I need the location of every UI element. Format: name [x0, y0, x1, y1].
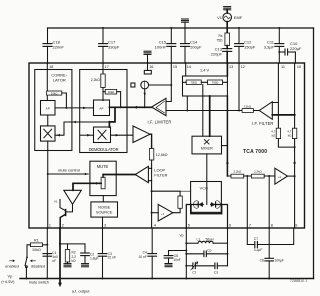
svg-text:15: 15 — [173, 65, 177, 69]
svg-text:I.F. FILTER: I.F. FILTER — [252, 121, 274, 126]
wire mixer to VCO — [206, 154, 208, 205]
svg-text:enabled: enabled — [5, 265, 19, 269]
resistor 4.7k A — [271, 128, 294, 147]
svg-text:220nF: 220nF — [53, 44, 65, 49]
svg-text:150pF: 150pF — [244, 44, 256, 49]
wire pin 7 column internal — [246, 176, 248, 228]
capacitor C2 — [81, 244, 99, 264]
svg-text:mute switch: mute switch — [29, 280, 49, 284]
wire pin 17 column internal — [102, 63, 104, 74]
svg-text:C8: C8 — [260, 258, 264, 262]
wire AP1 output to demodulator — [55, 107, 94, 110]
mute control wire — [48, 167, 88, 175]
svg-text:14: 14 — [187, 65, 191, 69]
wire IF limiter lower input from IF filter line — [166, 110, 227, 112]
node Vp supply label — [1, 274, 15, 285]
loop filter amplifier triangle — [135, 166, 167, 182]
noise source box — [91, 196, 118, 228]
svg-text:AP: AP — [99, 107, 103, 111]
wire loop filter output to mute resistor — [103, 174, 135, 176]
svg-text:Cp: Cp — [207, 249, 211, 253]
svg-text:R1: R1 — [34, 239, 39, 243]
IF limiter triangle — [148, 98, 172, 124]
svg-text:8: 8 — [271, 224, 273, 228]
svg-text:2: 2 — [62, 224, 64, 228]
ground below R2 — [64, 264, 71, 267]
wire pin 8 column internal — [268, 176, 270, 228]
capacitor Cp — [186, 249, 227, 257]
transistor Q1 emitter follower — [54, 200, 73, 229]
wire pin 12 column — [238, 63, 240, 112]
svg-text:TCA 7000: TCA 7000 — [243, 149, 267, 155]
svg-text:1: 1 — [49, 224, 51, 228]
svg-text:10nF: 10nF — [173, 258, 181, 262]
IF amplifier triangle — [133, 126, 150, 143]
internal 1.4V reference box with two 700 ohm resistors — [183, 68, 228, 96]
svg-text:1,8µF: 1,8µF — [90, 257, 99, 261]
resistor R2 2.2k — [65, 244, 76, 264]
svg-text:56µH: 56µH — [206, 238, 215, 242]
svg-text:12: 12 — [241, 65, 245, 69]
svg-text:disabled: disabled — [31, 265, 45, 269]
ground below C2 — [82, 264, 89, 267]
svg-text:6: 6 — [229, 224, 231, 228]
wire AP1 to X1 — [47, 115, 49, 126]
svg-text:FILTER: FILTER — [154, 173, 167, 178]
capacitor C18 — [43, 28, 64, 63]
svg-text:200µF: 200µF — [190, 44, 202, 49]
svg-text:C4: C4 — [143, 250, 147, 254]
resistor 2.2k demodulator — [91, 74, 105, 101]
current source into demod output node — [131, 81, 172, 107]
all-pass AP1 box — [41, 101, 56, 116]
svg-text:3,3µF: 3,3µF — [264, 44, 275, 49]
wire right border supply — [313, 28, 315, 279]
wire demodulated output AP2 to IF limiter — [110, 106, 152, 109]
wire IF amp output down to loop filter column — [150, 134, 152, 148]
svg-text:7: 7 — [249, 224, 251, 228]
capacitor C17 — [99, 27, 120, 63]
VCO block box — [191, 182, 222, 213]
svg-text:V1: V1 — [217, 15, 223, 20]
svg-text:11: 11 — [281, 65, 285, 69]
wire pin 13 column RF input — [226, 63, 231, 176]
wire thick jog to X2 input — [108, 107, 115, 127]
svg-text:(+4,5V): (+4,5V) — [1, 279, 15, 284]
svg-text:nF: nF — [52, 259, 56, 263]
wire varicaps to pin 5 — [186, 205, 196, 229]
wire pin 15 column to IF limiter input — [166, 63, 171, 102]
svg-text:1,4 V: 1,4 V — [200, 68, 209, 73]
svg-text:10kΩ: 10kΩ — [51, 91, 58, 95]
signal source V1 EMF — [217, 10, 243, 33]
wire pin 14 column — [185, 63, 187, 76]
wire IF filter top input from pin 11 — [272, 63, 278, 128]
svg-text:4: 4 — [154, 224, 156, 228]
ground above pin 16 — [144, 51, 151, 63]
svg-text:EMF: EMF — [234, 15, 243, 20]
svg-text:100µF: 100µF — [275, 258, 284, 262]
wire pin 18 column internal — [46, 63, 48, 101]
multiplier X1 box — [41, 126, 56, 141]
svg-text:MIXER: MIXER — [201, 147, 213, 151]
ground above capacitor C14 — [182, 19, 189, 22]
wire pin 10 / pin 9 column — [293, 63, 296, 228]
varicap diode D2 — [211, 201, 221, 209]
svg-text:5: 5 — [188, 224, 190, 228]
svg-text:2,2kΩ: 2,2kΩ — [254, 170, 263, 174]
resistor 12.6k — [149, 149, 167, 161]
resistor 2.2k A internal — [231, 170, 251, 178]
correlator block box — [35, 70, 72, 151]
svg-text:16: 16 — [149, 65, 153, 69]
wire varicaps to pin 6 — [217, 205, 227, 229]
capacitor C15 — [155, 27, 176, 63]
svg-text:13: 13 — [229, 65, 233, 69]
mixer block box — [192, 136, 227, 154]
wire X2 left stub — [80, 134, 94, 137]
svg-text:Vp: Vp — [8, 274, 14, 279]
capacitor C11 — [264, 27, 284, 63]
svg-text:+1: +1 — [161, 212, 165, 216]
svg-text:10: 10 — [297, 65, 301, 69]
wire pin 2 a.f. output — [58, 228, 90, 294]
resistor R1 10k — [27, 239, 47, 257]
svg-text:SOURCE: SOURCE — [96, 210, 113, 215]
svg-text:75Ω: 75Ω — [216, 39, 223, 43]
svg-text:12,6kΩ: 12,6kΩ — [156, 153, 168, 157]
svg-text:330pF: 330pF — [108, 44, 120, 49]
wire loop filter column to pin 4 — [151, 160, 153, 228]
ground above source V1 — [224, 7, 231, 10]
varicap diode D1 — [193, 201, 203, 209]
svg-text:2,2kΩ: 2,2kΩ — [233, 170, 242, 174]
wire 1.4V box to mixer thick — [209, 96, 211, 136]
svg-text:100nF: 100nF — [155, 44, 167, 49]
capacitor C14 — [181, 22, 202, 63]
svg-text:Cs: Cs — [214, 271, 218, 275]
resistor VCO bias — [152, 191, 191, 213]
IF filter amplifier triangle — [252, 102, 274, 127]
svg-text:LATOR: LATOR — [53, 77, 66, 82]
resistor RS 75 ohm — [216, 33, 229, 46]
output buffer amplifier +1 — [275, 168, 295, 184]
resistor 4.7k B — [287, 128, 296, 148]
trimmer capacitor Ct and capacitor Cs — [186, 262, 227, 275]
svg-text:17: 17 — [105, 65, 109, 69]
svg-text:L1: L1 — [197, 238, 201, 242]
svg-text:22 nF: 22 nF — [108, 255, 116, 259]
wire varicap resonator loop — [191, 205, 222, 214]
capacitor C10 — [278, 41, 302, 63]
resistor 12k — [227, 104, 259, 112]
svg-text:220µF: 220µF — [290, 46, 302, 51]
wire pin 5 column Vp — [179, 228, 187, 280]
ground below C5 — [165, 264, 172, 267]
svg-text:AP: AP — [46, 106, 50, 110]
capacitor C13 — [211, 46, 232, 64]
svg-text:+1: +1 — [278, 175, 282, 179]
inductor L1 56uH — [185, 238, 227, 245]
svg-text:700Ω: 700Ω — [212, 81, 219, 85]
svg-text:a.f. output: a.f. output — [72, 289, 91, 294]
demodulator block box — [80, 70, 127, 153]
mute switch — [5, 256, 49, 284]
svg-text:V1: V1 — [54, 200, 58, 204]
svg-text:700Ω: 700Ω — [190, 81, 197, 85]
wire 1.4V box to mixer thin — [202, 85, 204, 137]
wire X2 output to IF amplifier — [111, 134, 134, 137]
VCO buffer amplifier triangle — [152, 204, 173, 221]
svg-text:12kΩ: 12kΩ — [244, 104, 252, 108]
wire audio to AF amplifier — [73, 182, 101, 190]
svg-text:9: 9 — [295, 224, 297, 228]
svg-text:C5: C5 — [174, 254, 178, 258]
mute block box — [90, 161, 116, 195]
wire pin 6 column — [227, 228, 229, 266]
wire X1 output to pin 1 / mute control node — [47, 141, 49, 228]
svg-text:3: 3 — [104, 224, 106, 228]
svg-text:7Z88810.1: 7Z88810.1 — [290, 279, 308, 283]
capacitor C4 on pin 4 column — [138, 228, 156, 280]
svg-text:10 nF: 10 nF — [138, 255, 146, 259]
wire feedback to X1 input — [55, 121, 109, 137]
wire bottom Vp rail — [20, 278, 314, 280]
wire IF filter output to pin 10 column — [272, 114, 295, 116]
svg-text:3,3µF: 3,3µF — [254, 248, 263, 252]
svg-text:Vp: Vp — [179, 233, 183, 237]
all-pass AP2 box — [94, 100, 110, 116]
multiplier X2 box — [94, 127, 111, 143]
svg-text:MUTE: MUTE — [97, 164, 109, 169]
resistor 2.2k B internal — [251, 170, 275, 178]
pin 16 internal cell symbol — [144, 63, 151, 74]
capacitor C12 — [235, 27, 256, 63]
svg-text:2,2kΩ: 2,2kΩ — [91, 78, 100, 82]
capacitor C7 loop pin7 to pin9 — [247, 228, 293, 252]
capacitor C8 — [260, 228, 284, 280]
svg-text:10kΩ: 10kΩ — [32, 248, 41, 252]
svg-text:220pF: 220pF — [211, 51, 223, 56]
svg-text:DEMODULATOR: DEMODULATOR — [89, 147, 119, 152]
resistor 10k correlator — [47, 91, 67, 108]
capacitor C3 on pin 3 column — [98, 228, 116, 280]
svg-text:VCO: VCO — [200, 187, 208, 191]
svg-text:mute control: mute control — [58, 167, 80, 172]
svg-text:kΩ: kΩ — [72, 259, 77, 263]
wire 1.4V box bottom to IF line — [186, 96, 188, 112]
wire top supply rail — [48, 27, 314, 29]
svg-text:Rs: Rs — [218, 34, 222, 38]
svg-text:Ct: Ct — [192, 271, 195, 275]
svg-text:10kΩ: 10kΩ — [108, 90, 115, 94]
capacitor C1 — [43, 251, 58, 263]
IC package TCA7000 outline — [29, 63, 305, 228]
svg-text:I.F. LIMITER: I.F. LIMITER — [148, 120, 172, 125]
capacitor C5 — [164, 251, 186, 264]
mute resistor — [101, 175, 105, 189]
AF amplifier triangle — [64, 190, 82, 204]
wire pin 1 column external — [46, 228, 48, 280]
resistor 10k demodulator — [103, 89, 121, 107]
svg-text:18: 18 — [49, 65, 53, 69]
svg-text:C7: C7 — [254, 237, 258, 241]
